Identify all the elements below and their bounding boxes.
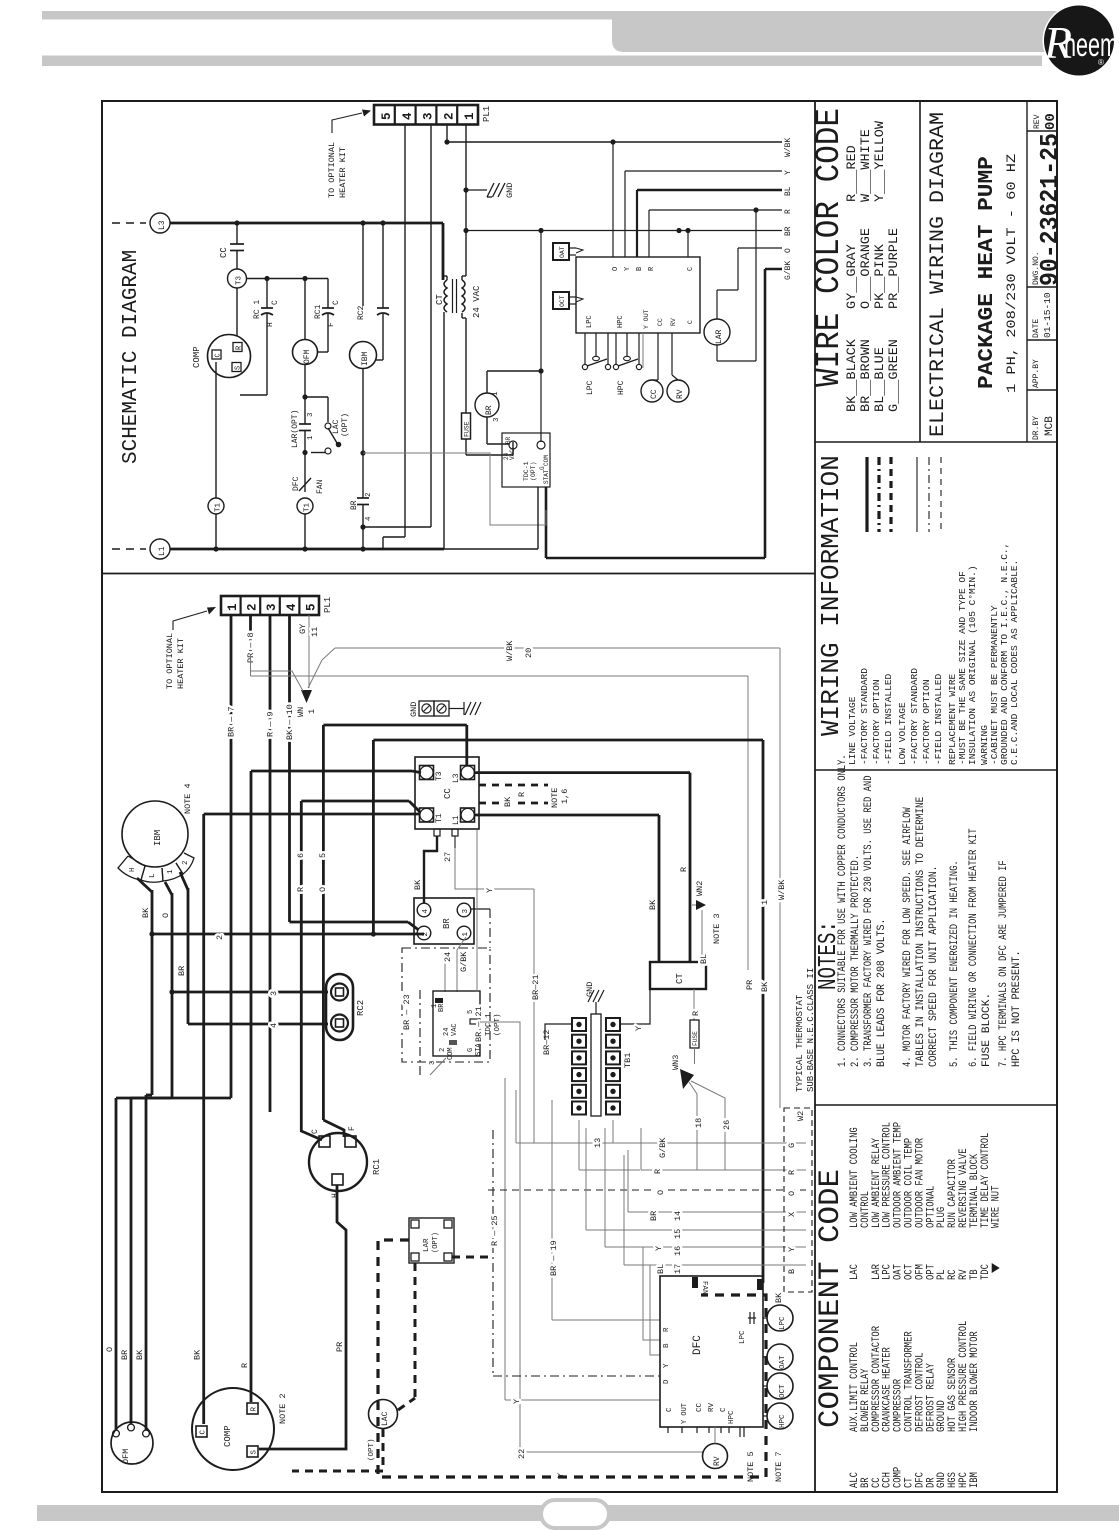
- svg-text:1: 1: [463, 112, 477, 120]
- thermostat row O dashed: [488, 1189, 806, 1191]
- CC bottom pins 27: [434, 829, 440, 836]
- low ambient relay coil LAR: [704, 319, 730, 345]
- svg-text:WIRE NUT: WIRE NUT: [991, 1185, 1003, 1228]
- node L3: [112, 222, 146, 224]
- svg-text:13: 13: [593, 1138, 603, 1148]
- Rheem logo: [1043, 4, 1116, 77]
- grey wire IBM to TDC: [363, 453, 546, 525]
- wire IBM to blower relay contact: [362, 369, 364, 499]
- svg-text:O: O: [787, 1191, 797, 1196]
- wire OFM to LAR contact: [304, 365, 306, 425]
- svg-text:CORRECT SPEED FOR UNIT APPLICA: CORRECT SPEED FOR UNIT APPLICATION.: [928, 866, 940, 1067]
- svg-text:2: 2: [439, 1048, 447, 1052]
- svg-text:R: R: [240, 1363, 250, 1368]
- svg-text:BR: BR: [649, 1211, 659, 1221]
- title block revision column: [1026, 101, 1028, 442]
- svg-text:VAC: VAC: [451, 1023, 459, 1036]
- wire BK CC-27 to blower relay 4: [424, 836, 437, 903]
- svg-text:TDC: TDC: [980, 1264, 992, 1280]
- svg-text:4: 4: [285, 603, 299, 611]
- wire PL1-3 to BR contact: [363, 526, 431, 528]
- svg-text:GY__GRAY: GY__GRAY: [844, 244, 859, 309]
- wire BL to WN2: [701, 952, 703, 962]
- svg-text:FUSE: FUSE: [692, 1031, 699, 1046]
- svg-text:CC: CC: [650, 389, 659, 399]
- svg-text:C: C: [666, 1407, 674, 1412]
- wire CC L3 to CT R lead: [474, 771, 690, 774]
- svg-text:4: 4: [401, 112, 415, 120]
- outdoor ambient temp sensor OAT: [553, 243, 569, 260]
- terminal T3: [228, 269, 247, 288]
- defrost control board DFC (schematic): [576, 257, 700, 333]
- svg-text:G/BK: G/BK: [784, 261, 793, 280]
- svg-text:C: C: [332, 300, 341, 305]
- svg-text:Y: Y: [663, 1363, 671, 1368]
- svg-text:RC1: RC1: [372, 1159, 382, 1175]
- svg-text:4. MOTOR FACTORY WIRED FOR LOW: 4. MOTOR FACTORY WIRED FOR LOW SPEED. SE…: [902, 807, 914, 1067]
- svg-text:4: 4: [422, 909, 430, 914]
- wires DFC bottom: [739, 1427, 741, 1437]
- svg-text:S: S: [235, 366, 243, 370]
- svg-text:COMPONENT CODE: COMPONENT CODE: [814, 1169, 848, 1428]
- wire R-25 dash dot: [492, 1130, 494, 1376]
- svg-text:C: C: [200, 1430, 208, 1435]
- svg-text:PACKAGE HEAT PUMP: PACKAGE HEAT PUMP: [976, 156, 999, 389]
- svg-text:NOTE 2: NOTE 2: [278, 1393, 288, 1424]
- svg-text:16: 16: [673, 1246, 683, 1256]
- typical thermostat dashed box W2: [784, 1108, 812, 1292]
- svg-text:CT: CT: [675, 973, 685, 984]
- svg-text:3: 3: [422, 112, 436, 120]
- wire BR-21: [476, 830, 478, 992]
- page footer grey bar: [37, 1505, 1119, 1521]
- svg-text:heem: heem: [1064, 25, 1118, 63]
- svg-text:14: 14: [673, 1211, 683, 1221]
- svg-text:BK: BK: [413, 879, 423, 890]
- svg-text:W/BK: W/BK: [777, 879, 787, 900]
- svg-text:5. THIS COMPONENT ENERGIZED IN: 5. THIS COMPONENT ENERGIZED IN HEATING.: [949, 860, 961, 1067]
- svg-text:RV: RV: [670, 318, 677, 326]
- dashed wire BK note 1-6: [479, 784, 548, 787]
- svg-text:HEATER KIT: HEATER KIT: [176, 638, 186, 689]
- svg-text:1: 1: [307, 709, 317, 714]
- svg-text:(OPT): (OPT): [494, 1013, 502, 1036]
- thermostat row B: [623, 1155, 625, 1265]
- ground symbol (wiring diagram): [449, 708, 464, 710]
- svg-text:T1: T1: [435, 813, 444, 823]
- svg-text:GND: GND: [409, 702, 419, 717]
- svg-text:T1: T1: [215, 502, 223, 512]
- svg-text:O: O: [318, 887, 328, 892]
- svg-text:6: 6: [296, 853, 306, 858]
- L1 supply wire: [170, 548, 444, 551]
- svg-text:HPC: HPC: [617, 315, 625, 328]
- low ambient relay contact LAR (OPT): [299, 423, 311, 425]
- svg-text:COM: COM: [447, 1047, 455, 1060]
- outdoor fan motor OFM: [304, 279, 306, 341]
- svg-text:FUSE BLOCK.: FUSE BLOCK.: [981, 993, 993, 1067]
- title block left border: [919, 101, 921, 442]
- contactor contact CC: [236, 223, 238, 244]
- wire R: [649, 209, 782, 211]
- svg-text:R: R: [784, 209, 793, 214]
- wire BL: [637, 189, 782, 192]
- svg-text:18: 18: [694, 1118, 704, 1128]
- wire BK from IBM H: [137, 878, 152, 892]
- svg-text:LOW VOLTAGE: LOW VOLTAGE: [897, 702, 908, 765]
- svg-text:INSULATION AS ORIGINAL (105 C°: INSULATION AS ORIGINAL (105 C°MIN.): [967, 565, 978, 765]
- wire 3 to RC2: [172, 991, 328, 994]
- page header grey bars: [42, 11, 618, 20]
- wire BR-23: [419, 990, 421, 1078]
- svg-text:R: R: [251, 1407, 259, 1412]
- svg-text:BR: BR: [784, 226, 793, 236]
- svg-text:R — 25: R — 25: [490, 1215, 500, 1246]
- legend line voltage factory standard sample: [865, 457, 868, 532]
- wire color code bottom border: [815, 441, 1057, 443]
- wire R-9 from PL1-3: [269, 615, 272, 1112]
- svg-text:LPC: LPC: [586, 315, 594, 328]
- wiring information bottom border: [815, 769, 1057, 771]
- legend line voltage field installed sample: [889, 457, 892, 532]
- svg-text:VAC: VAC: [509, 449, 516, 460]
- wires DFC to switches: [763, 1317, 767, 1319]
- compressor motor COMP: [208, 335, 251, 378]
- svg-text:WN2: WN2: [695, 881, 705, 896]
- svg-text:C: C: [271, 300, 280, 305]
- wire 26: [691, 1081, 725, 1170]
- svg-text:C: C: [311, 1129, 320, 1134]
- svg-text:B: B: [636, 267, 644, 271]
- svg-text:HPC: HPC: [728, 1410, 736, 1424]
- legend line voltage factory option sample: [877, 457, 880, 532]
- svg-text:(OPT): (OPT): [530, 461, 537, 481]
- svg-text:BLUE LEADS FOR 208 VOLTS.: BLUE LEADS FOR 208 VOLTS.: [876, 919, 888, 1067]
- svg-text:26: 26: [722, 1120, 732, 1130]
- svg-text:G/BK: G/BK: [658, 1137, 668, 1158]
- TB1 wires to rows: [578, 1120, 580, 1170]
- svg-text:LAC: LAC: [849, 1264, 861, 1280]
- wire Y: [625, 170, 782, 172]
- node L1: [112, 548, 146, 550]
- wire BR-12 to TB1: [545, 1024, 572, 1040]
- svg-text:DR.BY: DR.BY: [1032, 416, 1041, 440]
- svg-text:CC: CC: [696, 1402, 704, 1412]
- wire G/BK: [765, 268, 782, 271]
- svg-text:1: 1: [760, 900, 770, 905]
- L1 tail to TDC: [444, 548, 538, 550]
- svg-text:5: 5: [304, 603, 318, 611]
- svg-text:2: 2: [442, 112, 456, 120]
- svg-text:R: R: [296, 887, 306, 892]
- svg-text:APP.BY: APP.BY: [1032, 359, 1041, 388]
- svg-text:3: 3: [493, 417, 501, 422]
- terminal T1 fan string: [297, 498, 313, 514]
- svg-text:1: 1: [307, 435, 315, 440]
- svg-text:TDC-1: TDC-1: [523, 461, 530, 481]
- time delay control TDC-1 (wiring diagram): [433, 991, 480, 1056]
- jog O to left: [116, 1097, 172, 1100]
- svg-text:PR: PR: [745, 980, 755, 990]
- svg-text:BK: BK: [503, 796, 513, 807]
- svg-text:DATE: DATE: [1032, 319, 1041, 338]
- svg-text:-FACTORY OPTION: -FACTORY OPTION: [871, 679, 882, 765]
- divider between schematic and wiring diagram: [102, 573, 815, 575]
- svg-text:BR: BR: [485, 405, 494, 415]
- svg-text:BR — 7: BR — 7: [227, 706, 237, 737]
- compressor COMP (wiring diagram): [192, 1388, 274, 1470]
- svg-text:BK: BK: [135, 1349, 145, 1360]
- svg-text:LAR: LAR: [423, 1238, 431, 1252]
- svg-text:BL__BLUE: BL__BLUE: [872, 347, 887, 412]
- connector PL1 (wiring diagram): [221, 596, 319, 615]
- legend low voltage factory standard sample: [916, 457, 918, 532]
- svg-text:T3: T3: [236, 275, 244, 285]
- svg-text:W___WHITE: W___WHITE: [858, 129, 873, 202]
- svg-text:W/BK: W/BK: [784, 138, 793, 157]
- wire CC T3 to COMP R: [251, 770, 412, 773]
- svg-text:2: 2: [422, 932, 430, 937]
- svg-text:C: C: [687, 320, 694, 324]
- compressor contactor CC (wiring diagram): [415, 757, 479, 829]
- svg-text:C: C: [720, 1407, 728, 1412]
- control transformer CT (wiring diagram): [650, 962, 706, 989]
- svg-text:1 PH, 208/230 VOLT - 60 HZ: 1 PH, 208/230 VOLT - 60 HZ: [1005, 153, 1019, 393]
- svg-text:BK — 10: BK — 10: [285, 704, 295, 740]
- CT primary to L1: [443, 312, 445, 549]
- svg-text:H: H: [331, 1193, 340, 1198]
- svg-text:D: D: [663, 1379, 671, 1384]
- svg-text:OCT: OCT: [559, 295, 566, 307]
- low ambient control LAC (OPT) switch: [305, 396, 328, 398]
- svg-text:REV: REV: [1033, 114, 1042, 129]
- svg-text:00: 00: [1043, 113, 1059, 130]
- DFC top pins O Y B R C: [612, 142, 614, 257]
- svg-text:Y: Y: [634, 1026, 644, 1031]
- wire PR-8 from PL1-2: [249, 615, 252, 655]
- ground GND (schematic): [466, 189, 487, 191]
- DFC pin ticks: [667, 1427, 669, 1433]
- svg-text:H: H: [129, 867, 137, 872]
- svg-text:3: 3: [265, 603, 279, 611]
- wire CC L1 to CT BK lead: [474, 814, 659, 817]
- svg-text:Y: Y: [654, 1246, 664, 1251]
- wire W/BK-20: [308, 648, 335, 688]
- svg-text:24: 24: [443, 952, 453, 962]
- svg-text:F: F: [327, 322, 336, 327]
- svg-text:PR: PR: [335, 1342, 345, 1352]
- svg-text:BL: BL: [656, 1264, 666, 1274]
- thermostat row G: [612, 1120, 614, 1143]
- svg-text:B: B: [663, 1343, 671, 1348]
- svg-text:NOTE: NOTE: [550, 788, 560, 808]
- svg-text:4: 4: [365, 516, 373, 521]
- svg-text:RV: RV: [676, 389, 685, 399]
- svg-text:-FACTORY STANDARD: -FACTORY STANDARD: [909, 668, 920, 765]
- svg-text:Y: Y: [784, 170, 793, 175]
- svg-text:SCHEMATIC DIAGRAM: SCHEMATIC DIAGRAM: [120, 250, 143, 464]
- run capacitor RC2 (wiring diagram): [326, 974, 353, 1040]
- svg-text:HEATER KIT: HEATER KIT: [338, 147, 348, 198]
- svg-text:BR: BR: [177, 966, 187, 976]
- svg-text:PL1: PL1: [323, 597, 333, 613]
- svg-text:PL1: PL1: [482, 106, 492, 122]
- svg-text:CT: CT: [435, 294, 445, 305]
- wire O: [738, 247, 782, 249]
- svg-text:LPC: LPC: [779, 1316, 787, 1330]
- svg-text:F: F: [348, 1126, 357, 1131]
- svg-text:3: 3: [429, 1061, 437, 1065]
- svg-text:LAC: LAC: [381, 1411, 390, 1426]
- svg-text:CC: CC: [443, 788, 453, 799]
- wire Y CC to BR-21: [455, 848, 534, 889]
- jog BK to left: [146, 1094, 152, 1097]
- svg-text:LPC: LPC: [586, 380, 595, 395]
- svg-text:R: R: [679, 867, 689, 872]
- svg-text:W/BK: W/BK: [505, 640, 515, 661]
- svg-text:G___GREEN: G___GREEN: [886, 339, 901, 412]
- svg-text:O: O: [656, 1190, 666, 1195]
- svg-text:L3: L3: [158, 220, 167, 230]
- svg-text:C: C: [687, 267, 695, 271]
- svg-text:BK: BK: [774, 1292, 784, 1303]
- svg-text:L: L: [149, 873, 157, 878]
- dashed wire R note 1-6: [479, 802, 548, 805]
- svg-text:G: G: [787, 1143, 797, 1148]
- connector PL1 (schematic): [374, 105, 478, 125]
- wire R CT to fuse: [693, 989, 695, 1020]
- svg-text:-FIELD INSTALLED: -FIELD INSTALLED: [933, 673, 944, 765]
- svg-text:COMP: COMP: [223, 1425, 233, 1447]
- svg-text:RC 1: RC 1: [253, 300, 262, 319]
- svg-text:G: G: [467, 1048, 475, 1052]
- svg-text:7. HPC TERMINALS ON DFC ARE JU: 7. HPC TERMINALS ON DFC ARE JUMPERED IF: [998, 860, 1010, 1067]
- svg-text:R: R: [691, 1011, 701, 1016]
- svg-text:-FACTORY STANDARD: -FACTORY STANDARD: [859, 668, 870, 765]
- svg-text:GND: GND: [585, 982, 595, 997]
- thermostat row 15: [585, 1128, 587, 1230]
- svg-text:BR—21: BR—21: [531, 974, 541, 1000]
- svg-text:WIRING INFORMATION: WIRING INFORMATION: [816, 455, 846, 736]
- blower relay BR (wiring diagram): [414, 898, 474, 944]
- svg-text:Y OUT: Y OUT: [643, 309, 650, 329]
- indoor blower motor IBM: [362, 223, 364, 306]
- svg-text:R: R: [653, 1169, 663, 1174]
- svg-text:BK__BLACK: BK__BLACK: [844, 339, 859, 412]
- blower relay contact BR 4-2: [357, 497, 369, 499]
- run capacitor RC1 F-C branch: [327, 279, 329, 309]
- svg-text:90-23621-25: 90-23621-25: [1035, 133, 1065, 286]
- svg-text:R: R: [787, 1170, 797, 1175]
- svg-text:01-15-10: 01-15-10: [1042, 292, 1053, 338]
- wire nut WN3: [680, 1069, 694, 1089]
- svg-text:BR: BR: [505, 436, 512, 444]
- wire 4 to RC2: [188, 1023, 328, 1026]
- svg-text:BL: BL: [699, 954, 709, 964]
- svg-text:17: 17: [673, 1264, 683, 1274]
- heavy dashed wires LAR to LAC: [414, 1263, 417, 1398]
- svg-text:HPC IS NOT PRESENT.: HPC IS NOT PRESENT.: [1011, 950, 1023, 1067]
- svg-text:O___ORANGE: O___ORANGE: [858, 228, 873, 309]
- run capacitor RC2: [382, 223, 384, 308]
- blower relay coil BR (schematic): [475, 393, 499, 417]
- wire Y OUT grey: [505, 1399, 660, 1401]
- svg-text:BK: BK: [760, 981, 770, 992]
- svg-text:3: 3: [462, 909, 470, 914]
- svg-text:RC2: RC2: [357, 305, 366, 320]
- svg-text:24: 24: [443, 1028, 451, 1036]
- time delay control TDC-1 (schematic): [502, 433, 550, 487]
- svg-text:NOTE 7: NOTE 7: [774, 1451, 784, 1482]
- svg-text:OFM: OFM: [121, 1449, 131, 1464]
- svg-text:FAN: FAN: [700, 1281, 708, 1295]
- svg-text:BK: BK: [141, 907, 151, 918]
- svg-text:NOTE 4: NOTE 4: [183, 783, 193, 814]
- low ambient relay LAR (OPT): [409, 1218, 454, 1263]
- terminal block TB1: [591, 1014, 601, 1116]
- wire PL1-4 to L1: [404, 124, 406, 537]
- svg-text:15: 15: [673, 1229, 683, 1239]
- jog BR7 to left: [131, 1097, 231, 1100]
- svg-text:SUB-BASE N.E.C.CLASS II: SUB-BASE N.E.C.CLASS II: [806, 968, 816, 1092]
- svg-text:MCB: MCB: [1044, 416, 1056, 436]
- svg-text:5: 5: [380, 112, 394, 120]
- wire BK-10 from PL1-4: [288, 615, 291, 922]
- svg-text:-FIELD INSTALLED: -FIELD INSTALLED: [883, 673, 894, 765]
- svg-text:11: 11: [310, 627, 320, 637]
- svg-text:FAN: FAN: [316, 479, 325, 494]
- terminal T1 compressor string: [215, 362, 217, 498]
- svg-text:BR — 19: BR — 19: [549, 1240, 559, 1276]
- svg-text:6. FIELD WIRING OR CONNECTION: 6. FIELD WIRING OR CONNECTION FROM HEATE…: [968, 828, 980, 1067]
- run capacitor RC1: [309, 1133, 367, 1191]
- svg-text:R: R: [517, 792, 527, 797]
- wire O-5 feed to contactor L3: [323, 724, 466, 727]
- svg-text:BR: BR: [350, 500, 359, 510]
- right column border: [814, 101, 816, 1492]
- high pressure control HPC switch: [615, 333, 617, 364]
- svg-text:RC2: RC2: [356, 1000, 366, 1016]
- svg-text:O: O: [612, 267, 620, 271]
- drawing outer border: [102, 101, 1057, 1492]
- wire BR from IBM 1: [180, 872, 188, 890]
- svg-text:BR: BR: [120, 1350, 130, 1360]
- legend low voltage field installed sample: [940, 457, 942, 532]
- wire R-6 CC T1 to RC1: [301, 800, 409, 803]
- svg-text:2. COMPRESSOR MOTOR THERMALLY: 2. COMPRESSOR MOTOR THERMALLY PROTECTED.: [850, 855, 862, 1067]
- svg-text:RV: RV: [713, 1456, 722, 1466]
- ground terminal block GND: [419, 701, 434, 716]
- svg-text:PK__PINK: PK__PINK: [872, 244, 887, 309]
- svg-text:22: 22: [517, 1449, 527, 1459]
- svg-text:Y___YELLOW: Y___YELLOW: [872, 121, 887, 202]
- svg-text:TABLES IN INSTALLATION INSTRUC: TABLES IN INSTALLATION INSTRUCTIONS TO D…: [915, 796, 927, 1067]
- DFC Y OUT pin wire: [642, 333, 644, 368]
- svg-text:ELECTRICAL WIRING DIAGRAM: ELECTRICAL WIRING DIAGRAM: [927, 112, 950, 437]
- svg-text:24 VAC: 24 VAC: [472, 285, 482, 318]
- svg-text:T1: T1: [304, 502, 312, 512]
- wire 2 IBM to blower relay: [152, 933, 424, 936]
- svg-text:BL: BL: [784, 186, 793, 196]
- CT secondary wires: [461, 276, 463, 280]
- svg-text:IBM: IBM: [969, 1472, 981, 1488]
- indoor blower motor IBM (wiring diagram): [122, 801, 188, 867]
- svg-text:T3: T3: [435, 771, 444, 781]
- wire Y-22 from TDC: [480, 1022, 520, 1078]
- outdoor fan motor OFM: [111, 1422, 153, 1464]
- svg-text:2: 2: [246, 603, 260, 611]
- svg-text:R — 9: R — 9: [266, 711, 276, 737]
